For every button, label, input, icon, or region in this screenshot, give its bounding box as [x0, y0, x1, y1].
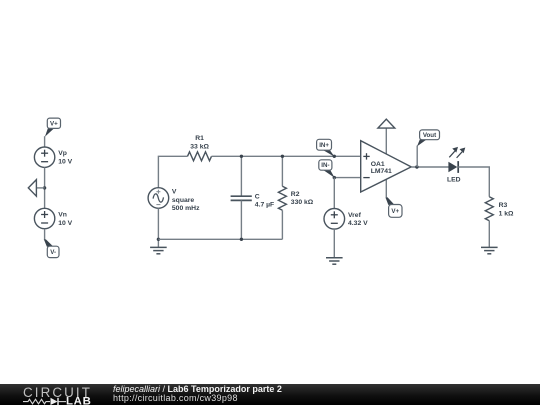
wire V source bottom to ground and rail — [157, 208, 159, 247]
wire R2 top lead — [281, 156, 283, 186]
ground under V source — [150, 247, 167, 253]
resistor R2 — [278, 186, 286, 210]
svg-text:10 V: 10 V — [58, 220, 72, 227]
net flag Vout — [417, 130, 440, 147]
label Vref 4.32 V — [348, 212, 368, 227]
capacitor C — [231, 196, 252, 200]
net flag V+ — [45, 118, 61, 137]
svg-text:V+: V+ — [50, 121, 58, 128]
wire IN- junction to Vref top — [333, 178, 335, 209]
ground arrow (left-pointing net arrow) — [28, 180, 44, 197]
supply arrow above op-amp — [378, 119, 395, 128]
label C 4.7 uF — [255, 193, 274, 208]
node junction R2 top — [281, 155, 284, 158]
footer title text — [113, 385, 282, 404]
op-amp OA1 LM741 — [361, 141, 412, 192]
wire op-amp V- bottom pin — [385, 175, 387, 198]
net flag V- — [44, 239, 59, 257]
svg-text:R1: R1 — [195, 135, 204, 142]
svg-text:Vn: Vn — [58, 212, 67, 219]
svg-text:C: C — [255, 193, 260, 200]
svg-text:Vp: Vp — [58, 150, 67, 157]
net flag IN- — [319, 160, 335, 178]
logo resistor squiggle — [23, 399, 50, 404]
CircuitLab logo — [22, 386, 104, 405]
svg-text:Vout: Vout — [423, 132, 436, 139]
voltage source Vref — [324, 209, 345, 230]
voltage source Vp — [34, 147, 54, 167]
logo diode — [51, 398, 58, 405]
net flag V+ at op-amp bottom pin — [386, 197, 402, 217]
node junction C bottom — [240, 238, 243, 241]
svg-text:10 V: 10 V — [58, 159, 72, 166]
node junction C top — [240, 155, 243, 158]
node junction IN- / Vref — [333, 176, 336, 179]
svg-text:LM741: LM741 — [371, 168, 392, 175]
wire R1 to op-amp IN+ — [212, 155, 361, 157]
svg-text:V-: V- — [50, 249, 56, 256]
wire C top lead — [240, 156, 242, 196]
ground under R3 — [481, 247, 498, 253]
resistor R1 — [188, 152, 212, 161]
svg-text:R3: R3 — [499, 202, 508, 209]
wire LED to R3 — [458, 167, 489, 197]
svg-text:330 kΩ: 330 kΩ — [291, 199, 314, 206]
ground under Vref — [326, 258, 343, 264]
node junction at V source bottom — [157, 238, 160, 241]
resistor R3 — [485, 197, 493, 221]
svg-text:IN-: IN- — [321, 162, 329, 169]
wire bottom rail — [158, 238, 282, 240]
svg-text:1 kΩ: 1 kΩ — [499, 211, 514, 218]
LED — [448, 147, 465, 173]
svg-text:Vref: Vref — [348, 212, 362, 219]
label R3 1 kOhm — [499, 202, 514, 217]
wire Vn to V- flag — [44, 229, 46, 240]
svg-text:LAB: LAB — [66, 396, 92, 405]
wire IN- to op-amp inverting input — [334, 177, 360, 179]
svg-text:4.32 V: 4.32 V — [348, 220, 368, 227]
node junction between Vp and Vn — [43, 186, 46, 189]
wire R2 bottom lead — [281, 210, 283, 239]
label Vp 10 V — [58, 150, 72, 165]
svg-text:IN+: IN+ — [319, 142, 329, 149]
svg-text:R2: R2 — [291, 191, 300, 198]
svg-text:LED: LED — [447, 177, 461, 184]
wire Vp to Vn — [44, 167, 46, 208]
voltage source V (square 500 mHz) — [148, 188, 169, 209]
wire R3 bottom to ground — [488, 221, 490, 248]
svg-text:square: square — [172, 197, 195, 204]
svg-text:33 kΩ: 33 kΩ — [190, 143, 209, 150]
label Vn 10 V — [58, 212, 72, 227]
wire op-amp output — [411, 166, 448, 168]
wire op-amp V+ top pin — [385, 128, 387, 160]
wire V source top to R1 — [158, 156, 187, 187]
label R2 330 kOhm — [291, 191, 314, 206]
node junction op-amp output — [415, 165, 418, 168]
svg-text:V+: V+ — [391, 208, 399, 215]
svg-text:500 mHz: 500 mHz — [172, 205, 200, 212]
label V square 500 mHz — [172, 189, 200, 212]
label R1 33 kOhm — [190, 135, 209, 150]
svg-text:V: V — [172, 189, 177, 196]
voltage source Vn — [34, 208, 54, 228]
wire Vref bottom to ground — [333, 229, 335, 258]
wire V+ flag to Vp top — [44, 136, 46, 147]
wire output junction up to Vout flag — [416, 146, 418, 167]
net flag IN+ — [317, 139, 336, 158]
wire C bottom lead — [240, 201, 242, 240]
svg-text:4.7 µF: 4.7 µF — [255, 202, 274, 209]
